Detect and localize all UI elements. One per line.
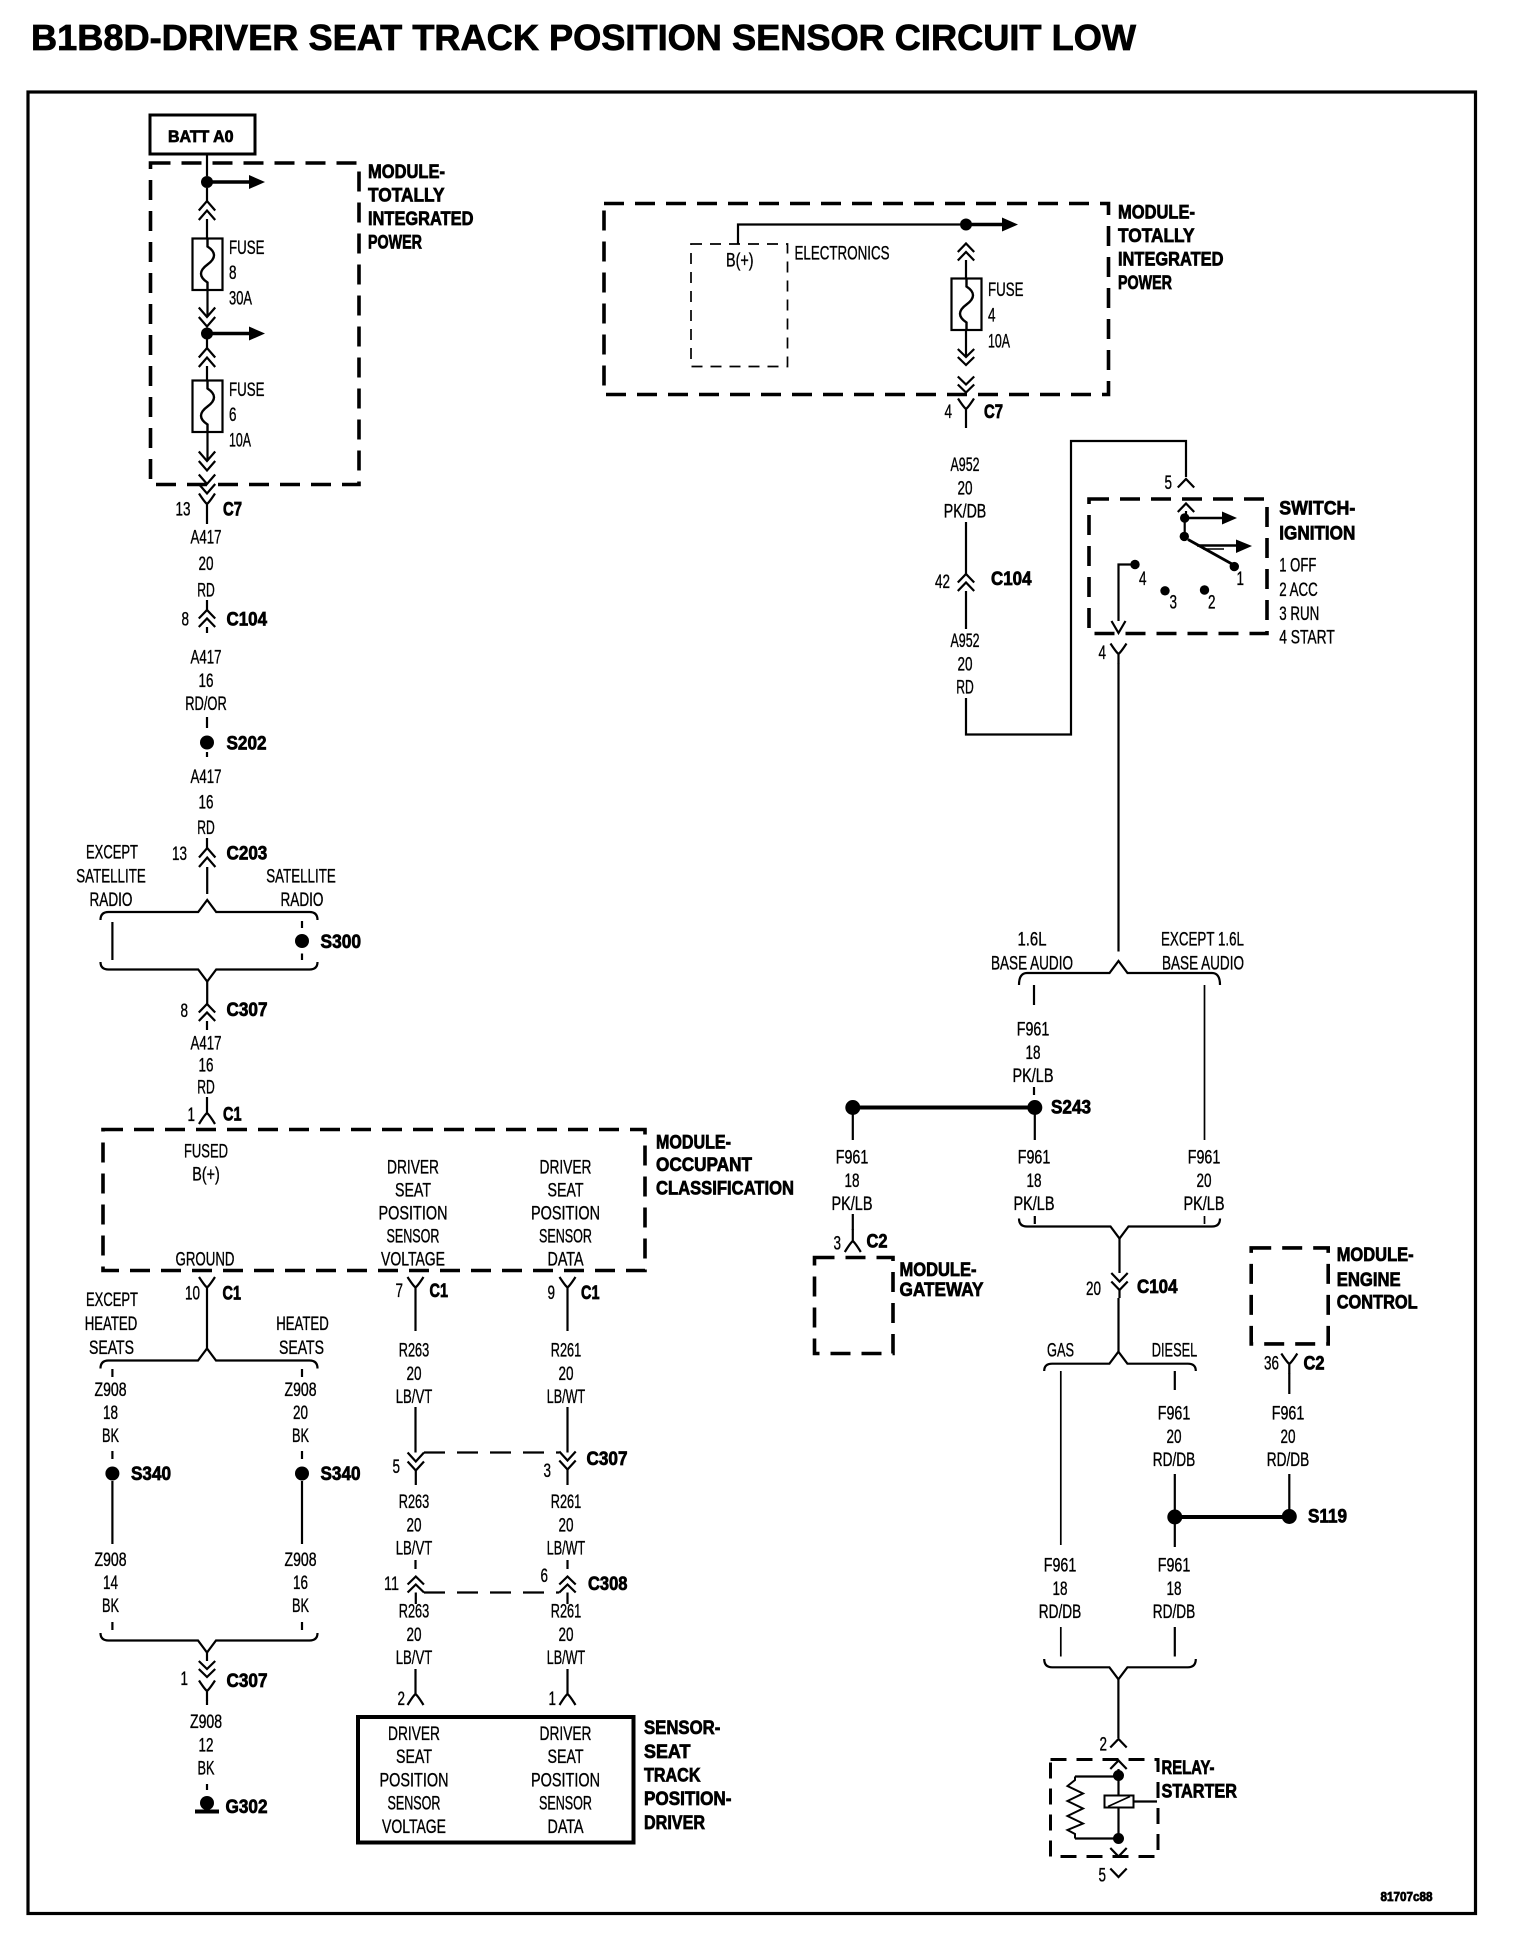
relay node bottom [1113, 1833, 1124, 1844]
svg-text:CONTROL: CONTROL [1337, 1292, 1418, 1314]
svg-text:A417: A417 [191, 648, 222, 669]
wire to fuse 8 [206, 219, 208, 239]
svg-text:FUSE: FUSE [229, 380, 265, 401]
svg-text:S340: S340 [131, 1463, 171, 1485]
wire F961 20 RD/DB engine [1288, 1373, 1290, 1394]
svg-text:OCCUPANT: OCCUPANT [656, 1154, 752, 1176]
svg-text:LB/WT: LB/WT [547, 1387, 586, 1408]
svg-text:6: 6 [541, 1566, 549, 1587]
svg-text:PK/LB: PK/LB [1013, 1066, 1054, 1087]
svg-text:SENSOR: SENSOR [539, 1227, 592, 1248]
splice S202 [200, 736, 214, 750]
svg-text:BATT A0: BATT A0 [168, 127, 234, 146]
svg-text:EXCEPT 1.6L: EXCEPT 1.6L [1161, 930, 1244, 951]
svg-text:3: 3 [1170, 593, 1178, 614]
wire node to connector [206, 188, 208, 201]
svg-text:4: 4 [1139, 569, 1147, 590]
svg-text:BK: BK [102, 1426, 119, 1447]
switch wiper to position 1 [1188, 540, 1232, 565]
wire F961 18 PK/LB to gateway [852, 1114, 854, 1140]
svg-text:CLASSIFICATION: CLASSIFICATION [656, 1178, 794, 1200]
svg-text:A417: A417 [191, 528, 222, 549]
svg-text:20: 20 [1281, 1427, 1296, 1448]
svg-text:C2: C2 [867, 1231, 888, 1253]
svg-text:INTEGRATED: INTEGRATED [368, 208, 474, 230]
svg-text:RADIO: RADIO [281, 890, 324, 911]
svg-text:IGNITION: IGNITION [1279, 523, 1355, 545]
svg-text:13: 13 [176, 500, 191, 521]
svg-text:10A: 10A [988, 331, 1010, 352]
svg-text:HEATED: HEATED [85, 1314, 138, 1335]
svg-text:11: 11 [384, 1574, 399, 1595]
svg-text:F961: F961 [1158, 1556, 1191, 1577]
svg-text:LB/VT: LB/VT [396, 1648, 433, 1669]
wire to fuel branch [1117, 1298, 1119, 1352]
svg-text:LB/VT: LB/VT [396, 1387, 433, 1408]
connector pin 1 into sensor [566, 1669, 568, 1682]
connector pin 5 relay [1110, 1869, 1126, 1878]
svg-text:POSITION-: POSITION- [644, 1788, 732, 1810]
svg-text:20: 20 [1086, 1279, 1101, 1300]
svg-text:F961: F961 [1018, 1148, 1051, 1169]
svg-text:B(+): B(+) [726, 251, 754, 272]
svg-text:20: 20 [407, 1515, 422, 1536]
svg-text:POWER: POWER [1118, 272, 1172, 294]
module U2 occupant classification (dashed box) [103, 1130, 645, 1271]
svg-text:MODULE-: MODULE- [900, 1259, 977, 1281]
svg-text:20: 20 [958, 478, 973, 499]
svg-text:SEAT: SEAT [396, 1747, 432, 1768]
connector C1 pin 10 [199, 1277, 215, 1297]
svg-text:C104: C104 [991, 568, 1032, 590]
svg-text:VOLTAGE: VOLTAGE [381, 1250, 445, 1271]
svg-text:SATELLITE: SATELLITE [266, 867, 336, 888]
svg-text:SENSOR-: SENSOR- [644, 1717, 720, 1739]
svg-text:3 RUN: 3 RUN [1279, 604, 1319, 625]
svg-text:5: 5 [1165, 473, 1173, 494]
svg-text:8: 8 [182, 610, 190, 631]
wire Z908 16 BK [301, 1481, 303, 1544]
svg-text:RD: RD [197, 580, 215, 601]
relay exit chevron [1110, 1848, 1126, 1857]
svg-text:MODULE-: MODULE- [1337, 1244, 1414, 1266]
svg-text:DRIVER: DRIVER [540, 1158, 592, 1179]
svg-text:18: 18 [845, 1171, 860, 1192]
wire fuse 4 out [965, 331, 967, 358]
svg-text:S119: S119 [1308, 1506, 1347, 1528]
svg-text:SENSOR: SENSOR [387, 1227, 440, 1248]
switch contact 4 [1130, 560, 1139, 569]
inline connector chevrons [958, 349, 974, 357]
relay node top [1117, 1769, 1119, 1775]
wire node to connector [206, 339, 208, 348]
svg-text:RD/DB: RD/DB [1039, 1602, 1082, 1623]
svg-text:SEAT: SEAT [548, 1181, 584, 1202]
svg-text:C1: C1 [223, 1283, 242, 1305]
svg-text:LB/VT: LB/VT [396, 1539, 433, 1560]
wire fuse 8 out [206, 290, 208, 317]
svg-text:4: 4 [1099, 643, 1107, 664]
svg-text:GAS: GAS [1047, 1341, 1074, 1362]
svg-text:20: 20 [1167, 1427, 1182, 1448]
svg-text:S300: S300 [321, 931, 362, 953]
wire Z908 14 BK [111, 1481, 113, 1544]
svg-text:RD: RD [197, 1078, 215, 1099]
svg-text:MODULE-: MODULE- [656, 1132, 731, 1154]
svg-text:20: 20 [559, 1625, 574, 1646]
svg-text:13: 13 [172, 844, 187, 865]
connector C203 pin 13 [206, 838, 208, 848]
svg-text:F961: F961 [1158, 1404, 1191, 1425]
relay coil resistor [1075, 1775, 1114, 1777]
connector C307 pin 1 [206, 1653, 208, 1662]
battery feed BATT A0 [150, 115, 255, 154]
node junction 1 [201, 176, 213, 188]
svg-text:C1: C1 [581, 1282, 600, 1304]
svg-text:POSITION: POSITION [531, 1770, 600, 1791]
svg-text:POSITION: POSITION [380, 1770, 449, 1791]
wire to fuse 6 [206, 366, 208, 381]
svg-text:C104: C104 [227, 609, 268, 631]
svg-text:C2: C2 [1304, 1353, 1325, 1375]
svg-text:16: 16 [199, 1056, 214, 1077]
svg-text:20: 20 [293, 1403, 308, 1424]
arrow feed out 3 [970, 223, 1002, 226]
svg-text:RD/DB: RD/DB [1267, 1450, 1310, 1471]
svg-text:DRIVER: DRIVER [540, 1724, 592, 1745]
wire contact 4 down [1119, 565, 1132, 622]
wire except satellite radio branch [111, 922, 113, 960]
connector pin 4 below switch [1111, 644, 1127, 664]
wire F961 20 PK/LB right [1204, 985, 1206, 1140]
svg-text:C1: C1 [223, 1104, 242, 1126]
svg-text:ELECTRONICS: ELECTRONICS [795, 244, 890, 265]
switch contact 3 [1160, 586, 1169, 595]
svg-text:20: 20 [407, 1625, 422, 1646]
svg-text:S243: S243 [1051, 1097, 1091, 1119]
svg-text:TOTALLY: TOTALLY [1118, 225, 1195, 247]
svg-text:16: 16 [199, 671, 214, 692]
svg-text:1: 1 [1237, 569, 1245, 590]
svg-text:GROUND: GROUND [176, 1250, 235, 1271]
relay entry chevron [1110, 1761, 1126, 1770]
svg-text:PK/LB: PK/LB [1014, 1194, 1055, 1215]
module U1 totally integrated power (dashed box) [151, 163, 360, 485]
wire gas branch F961 18 RD/DB [1060, 1371, 1062, 1545]
wire BATT A0 to node [206, 154, 208, 176]
connector C7 pin 13 [199, 494, 215, 514]
svg-text:R263: R263 [399, 1341, 430, 1362]
module U4 gateway (dashed box) [815, 1258, 894, 1354]
fuel branch brace split [1044, 1352, 1196, 1371]
svg-text:DATA: DATA [548, 1817, 584, 1838]
svg-text:42: 42 [935, 572, 950, 593]
node junction 3 [960, 219, 972, 231]
svg-text:36: 36 [1264, 1354, 1279, 1375]
ground branch brace merge [101, 1633, 318, 1653]
inline connector chevrons [199, 201, 215, 211]
svg-text:STARTER: STARTER [1162, 1781, 1238, 1803]
svg-text:8: 8 [229, 263, 237, 284]
svg-text:14: 14 [103, 1573, 118, 1594]
svg-text:DRIVER: DRIVER [388, 1724, 440, 1745]
svg-text:20: 20 [559, 1364, 574, 1385]
svg-text:HEATED: HEATED [276, 1314, 329, 1335]
svg-text:C7: C7 [984, 401, 1003, 423]
svg-text:FUSE: FUSE [988, 280, 1024, 301]
svg-text:3: 3 [834, 1234, 842, 1255]
svg-text:TRACK: TRACK [644, 1765, 701, 1787]
svg-text:SEATS: SEATS [279, 1338, 324, 1359]
svg-text:SWITCH-: SWITCH- [1279, 498, 1355, 520]
svg-text:BK: BK [292, 1426, 309, 1447]
svg-text:SEAT: SEAT [644, 1741, 691, 1763]
relay coil element K1 [1117, 1776, 1119, 1839]
svg-text:2: 2 [398, 1689, 406, 1710]
svg-text:DATA: DATA [548, 1250, 584, 1271]
svg-text:LB/WT: LB/WT [547, 1539, 586, 1560]
svg-text:A417: A417 [191, 767, 222, 788]
wire switch to audio branch [1117, 663, 1119, 952]
svg-text:RELAY-: RELAY- [1162, 1757, 1215, 1779]
svg-text:LB/WT: LB/WT [547, 1648, 586, 1669]
svg-text:20: 20 [1197, 1171, 1212, 1192]
module exit chevrons [199, 475, 215, 485]
relay starter (dashed box) [1051, 1760, 1159, 1857]
svg-text:PK/DB: PK/DB [944, 502, 987, 523]
svg-text:2: 2 [1100, 1735, 1108, 1756]
svg-text:SATELLITE: SATELLITE [76, 867, 146, 888]
svg-text:SENSOR: SENSOR [539, 1794, 592, 1815]
connector pin 5 [1178, 479, 1194, 488]
svg-text:A952: A952 [951, 455, 980, 476]
connector C1 pin 1 [206, 1097, 208, 1101]
svg-text:Z908: Z908 [95, 1550, 127, 1571]
svg-text:BK: BK [198, 1759, 215, 1780]
svg-text:Z908: Z908 [285, 1550, 317, 1571]
wire B+ to node [738, 225, 960, 245]
svg-text:POWER: POWER [368, 232, 422, 254]
connector C1 pin 7 [408, 1277, 424, 1297]
audio branch brace merge [1019, 1219, 1220, 1239]
wire tick [206, 717, 208, 728]
svg-text:TOTALLY: TOTALLY [368, 185, 445, 207]
svg-text:12: 12 [199, 1735, 214, 1756]
splice S119 [1167, 1510, 1182, 1525]
connector C307 pins 5 and 3 [424, 1451, 559, 1453]
svg-text:8: 8 [181, 1001, 189, 1022]
wire F961 18 PK/LB center [1034, 1114, 1036, 1140]
svg-text:B1B8D-DRIVER SEAT TRACK POSITI: B1B8D-DRIVER SEAT TRACK POSITION SENSOR … [31, 17, 1137, 58]
inline connector chevrons [199, 452, 215, 462]
svg-text:6: 6 [229, 405, 237, 426]
svg-text:R261: R261 [551, 1341, 582, 1362]
svg-text:R263: R263 [399, 1492, 430, 1513]
svg-text:EXCEPT: EXCEPT [86, 843, 138, 864]
svg-text:2 ACC: 2 ACC [1279, 580, 1318, 601]
svg-text:DRIVER: DRIVER [644, 1812, 705, 1834]
wire Z908 20 BK [301, 1369, 303, 1377]
svg-text:Z908: Z908 [285, 1380, 317, 1401]
svg-text:BK: BK [292, 1596, 309, 1617]
svg-text:GATEWAY: GATEWAY [900, 1279, 984, 1301]
connector C2 pin 3 [852, 1214, 854, 1230]
inline connector chevrons [958, 244, 974, 253]
svg-text:81707c88: 81707c88 [1381, 1890, 1433, 1904]
svg-text:F961: F961 [1272, 1404, 1305, 1425]
connector pin 2 into sensor [414, 1669, 416, 1682]
svg-text:5: 5 [393, 1457, 401, 1478]
svg-text:SEAT: SEAT [548, 1747, 584, 1768]
svg-text:5: 5 [1099, 1866, 1107, 1887]
svg-text:EXCEPT: EXCEPT [86, 1290, 138, 1311]
svg-text:16: 16 [293, 1573, 308, 1594]
svg-text:Z908: Z908 [190, 1712, 222, 1733]
splice S243 [845, 1100, 860, 1115]
svg-text:MODULE-: MODULE- [368, 161, 445, 183]
svg-text:POSITION: POSITION [531, 1204, 600, 1225]
svg-text:10: 10 [185, 1284, 200, 1305]
svg-text:B(+): B(+) [192, 1165, 220, 1186]
audio branch brace split [1019, 961, 1220, 985]
svg-text:POSITION: POSITION [379, 1204, 448, 1225]
svg-text:20: 20 [199, 554, 214, 575]
inline connector chevrons [199, 348, 215, 358]
fuse F6 10A [193, 381, 223, 433]
connector C104 pin 8 [206, 600, 208, 610]
branch brace merge [101, 962, 318, 982]
svg-text:C307: C307 [227, 1670, 268, 1692]
svg-text:DIESEL: DIESEL [1152, 1341, 1198, 1362]
svg-text:S202: S202 [227, 733, 267, 755]
svg-text:R261: R261 [551, 1492, 582, 1513]
svg-text:C307: C307 [587, 1448, 628, 1470]
wire F961 18 RD/DB below S119 [1174, 1524, 1176, 1547]
svg-text:16: 16 [199, 793, 214, 814]
svg-text:ENGINE: ENGINE [1337, 1269, 1401, 1291]
svg-text:10A: 10A [229, 430, 251, 451]
svg-text:SENSOR: SENSOR [388, 1794, 441, 1815]
svg-text:4 START: 4 START [1279, 628, 1335, 649]
arrow feed out 2 [211, 332, 249, 335]
svg-text:BASE AUDIO: BASE AUDIO [991, 954, 1073, 975]
fuel branch brace merge [1044, 1659, 1196, 1679]
svg-text:9: 9 [548, 1283, 556, 1304]
svg-text:F961: F961 [1188, 1148, 1221, 1169]
ground G302 [200, 1796, 214, 1810]
node junction 2 [201, 328, 213, 340]
B(+) terminal box [691, 244, 788, 367]
svg-text:20: 20 [407, 1364, 422, 1385]
wire F961 18 PK/LB top [1033, 985, 1035, 1005]
svg-text:BASE AUDIO: BASE AUDIO [1162, 954, 1244, 975]
wire to ignition switch [966, 441, 1186, 735]
switch arrow 1 [1189, 517, 1222, 520]
connector C7 pin 4 [958, 399, 974, 419]
svg-text:RD/DB: RD/DB [1153, 1602, 1196, 1623]
svg-text:RADIO: RADIO [90, 890, 133, 911]
splice S340 right [295, 1467, 309, 1481]
svg-text:18: 18 [1027, 1171, 1042, 1192]
splice S340 left [105, 1467, 119, 1481]
svg-text:DRIVER: DRIVER [387, 1158, 439, 1179]
svg-text:A952: A952 [951, 631, 980, 652]
svg-text:INTEGRATED: INTEGRATED [1118, 249, 1224, 271]
fuse F8 30A [193, 239, 223, 291]
svg-text:VOLTAGE: VOLTAGE [382, 1817, 446, 1838]
switch common node [1185, 511, 1187, 518]
svg-text:30A: 30A [229, 288, 252, 309]
splice S300 [301, 921, 303, 928]
connector C104 pin 20 [1111, 1273, 1127, 1282]
svg-text:1 OFF: 1 OFF [1279, 556, 1316, 577]
connector C308 pins 11 and 6 [414, 1560, 416, 1569]
svg-text:F961: F961 [1017, 1020, 1050, 1041]
svg-text:PK/LB: PK/LB [1184, 1194, 1225, 1215]
svg-text:RD/DB: RD/DB [1153, 1450, 1196, 1471]
svg-text:2: 2 [1208, 593, 1216, 614]
switch contact 1 [1230, 562, 1239, 571]
arrow feed out 1 [211, 180, 249, 183]
svg-text:18: 18 [1053, 1579, 1068, 1600]
svg-text:R261: R261 [551, 1602, 582, 1623]
svg-text:7: 7 [396, 1281, 404, 1302]
svg-text:18: 18 [1026, 1043, 1041, 1064]
module U5 engine control (dashed box) [1251, 1248, 1328, 1344]
svg-text:C308: C308 [588, 1573, 628, 1595]
connector C307 pin 8 [206, 982, 208, 1005]
svg-text:C7: C7 [223, 499, 242, 521]
connector C104 pin 42 [965, 522, 967, 574]
wire Z908 18 BK [111, 1369, 113, 1377]
svg-text:SEATS: SEATS [89, 1338, 134, 1359]
svg-text:SEAT: SEAT [395, 1181, 431, 1202]
svg-text:4: 4 [945, 402, 953, 423]
svg-text:18: 18 [1167, 1579, 1182, 1600]
svg-text:A417: A417 [191, 1034, 222, 1055]
svg-text:3: 3 [544, 1461, 552, 1482]
module exit chevrons [958, 377, 974, 385]
svg-text:G302: G302 [226, 1796, 268, 1818]
svg-text:MODULE-: MODULE- [1118, 202, 1195, 224]
switch arrow 2 [1197, 544, 1236, 546]
module U3 totally integrated power (dashed box) [604, 204, 1109, 395]
svg-text:RD: RD [197, 818, 215, 839]
svg-text:18: 18 [103, 1403, 118, 1424]
wire diesel branch F961 20 RD/DB [1174, 1371, 1176, 1390]
inline connector chevrons [199, 308, 215, 318]
ground branch brace split [101, 1349, 318, 1369]
svg-text:R263: R263 [399, 1602, 430, 1623]
svg-text:C1: C1 [430, 1280, 449, 1302]
svg-text:S340: S340 [321, 1463, 361, 1485]
svg-text:PK/LB: PK/LB [832, 1194, 873, 1215]
svg-text:BK: BK [102, 1596, 119, 1617]
sensor seat track position driver (box) [358, 1717, 634, 1843]
svg-text:1: 1 [549, 1689, 557, 1710]
svg-text:20: 20 [958, 654, 973, 675]
svg-text:C203: C203 [227, 843, 268, 865]
svg-text:FUSED: FUSED [184, 1142, 228, 1163]
svg-text:1: 1 [188, 1105, 196, 1126]
connector C1 pin 9 [560, 1277, 576, 1297]
svg-text:C104: C104 [1137, 1276, 1178, 1298]
fuse F4 10A [952, 279, 982, 331]
svg-text:RD: RD [956, 678, 974, 699]
svg-text:C307: C307 [227, 999, 268, 1021]
switch ignition (dashed box) [1089, 499, 1267, 634]
svg-text:FUSE: FUSE [229, 238, 265, 259]
